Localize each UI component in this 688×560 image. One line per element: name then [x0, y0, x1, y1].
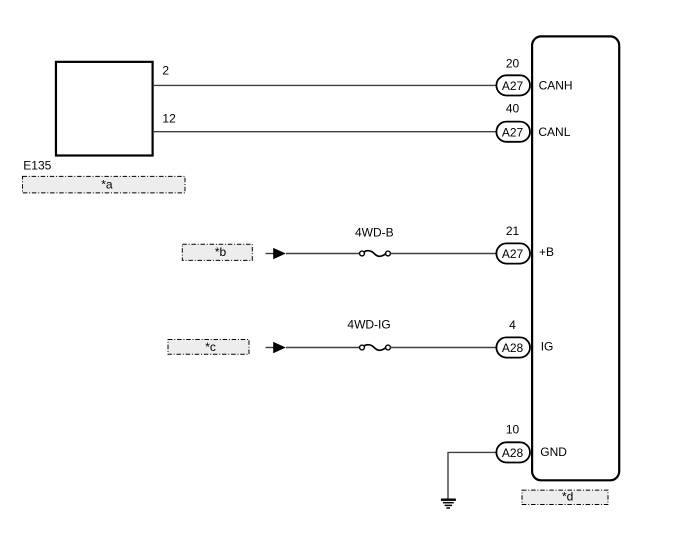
- svg-text:*d: *d: [562, 489, 573, 503]
- svg-text:E135: E135: [23, 159, 51, 173]
- svg-text:A28: A28: [502, 446, 524, 460]
- svg-text:4WD-B: 4WD-B: [355, 225, 394, 239]
- svg-text:4: 4: [509, 318, 516, 332]
- svg-text:4WD-IG: 4WD-IG: [347, 317, 390, 331]
- svg-text:*c: *c: [205, 340, 216, 354]
- svg-text:A27: A27: [502, 79, 524, 93]
- svg-text:*b: *b: [215, 245, 227, 259]
- svg-text:40: 40: [506, 102, 520, 116]
- svg-text:10: 10: [506, 422, 520, 436]
- svg-text:A27: A27: [502, 247, 524, 261]
- svg-text:12: 12: [162, 111, 176, 125]
- svg-text:CANL: CANL: [538, 125, 570, 139]
- svg-text:IG: IG: [541, 339, 554, 353]
- svg-text:A28: A28: [502, 341, 524, 355]
- svg-text:GND: GND: [540, 445, 567, 459]
- svg-text:+B: +B: [539, 245, 554, 259]
- svg-text:21: 21: [506, 224, 520, 238]
- svg-text:2: 2: [162, 64, 169, 78]
- svg-text:*a: *a: [101, 177, 113, 191]
- svg-text:20: 20: [506, 57, 520, 71]
- svg-text:A27: A27: [502, 125, 524, 139]
- svg-text:CANH: CANH: [539, 79, 573, 93]
